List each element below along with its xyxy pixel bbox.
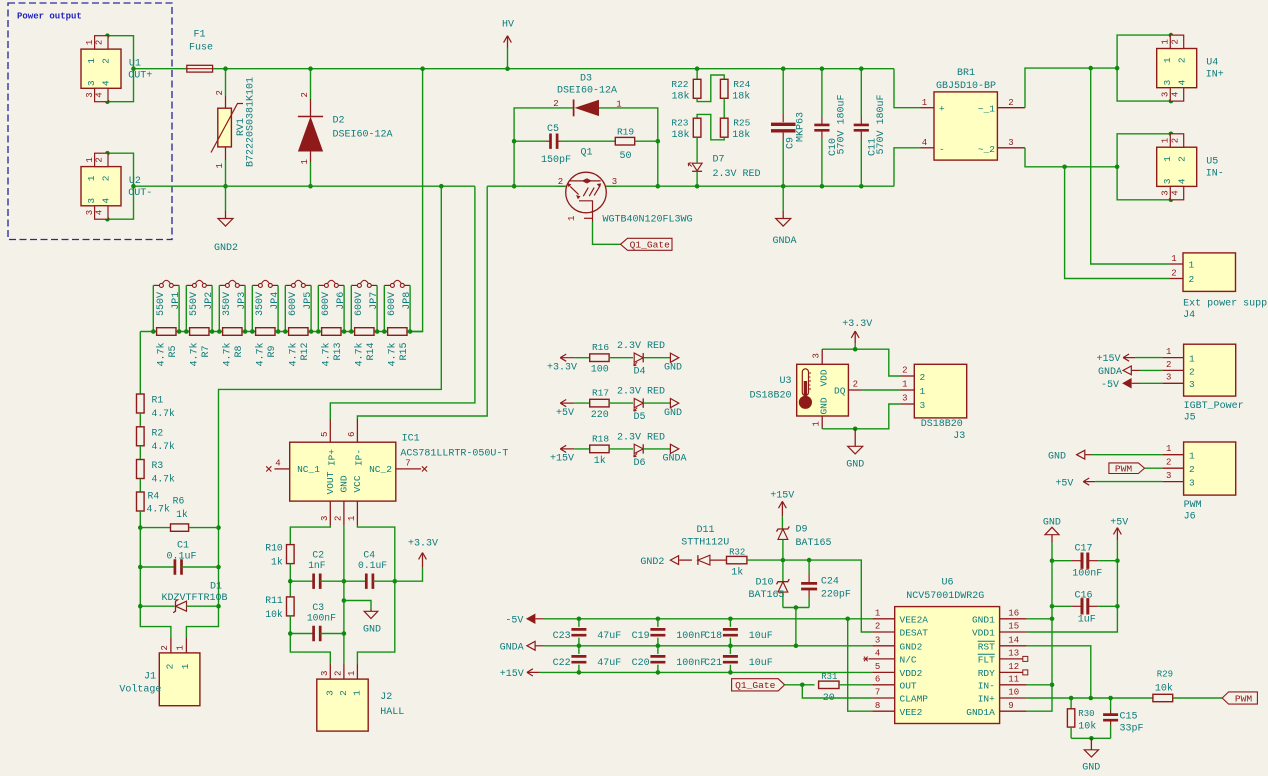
svg-text:GND: GND bbox=[1048, 451, 1066, 462]
svg-text:R6: R6 bbox=[173, 496, 185, 507]
svg-text:10: 10 bbox=[1008, 688, 1019, 698]
svg-text:F1: F1 bbox=[193, 30, 205, 41]
svg-text:IN+: IN+ bbox=[1206, 70, 1224, 81]
svg-text:3: 3 bbox=[1162, 178, 1173, 184]
svg-text:1k: 1k bbox=[731, 567, 743, 579]
svg-text:D4: D4 bbox=[633, 367, 645, 378]
svg-text:BAT165: BAT165 bbox=[796, 538, 832, 549]
svg-text:~_1: ~_1 bbox=[978, 104, 995, 115]
svg-text:1: 1 bbox=[1171, 254, 1176, 264]
svg-text:5: 5 bbox=[875, 662, 880, 672]
wire to Ext power supply pin1 bbox=[1091, 68, 1170, 264]
resistor R2 4.7k bbox=[137, 413, 175, 452]
svg-text:JP2: JP2 bbox=[204, 292, 215, 310]
svg-text:D3: D3 bbox=[580, 74, 592, 85]
svg-text:+5V: +5V bbox=[1055, 478, 1073, 489]
svg-text:R15: R15 bbox=[399, 342, 410, 360]
wire R30/C15 ground link bbox=[1071, 737, 1111, 739]
svg-text:U5: U5 bbox=[1206, 156, 1218, 167]
svg-text:2.3V RED: 2.3V RED bbox=[617, 341, 665, 352]
svg-text:3: 3 bbox=[920, 400, 926, 411]
svg-text:1: 1 bbox=[1189, 451, 1195, 462]
svg-text:1k: 1k bbox=[176, 509, 188, 520]
connector J2 HALL bbox=[317, 664, 405, 731]
svg-text:+3.3V: +3.3V bbox=[842, 319, 872, 330]
svg-text:2.3V RED: 2.3V RED bbox=[617, 432, 665, 443]
svg-text:DSEI60-12A: DSEI60-12A bbox=[333, 130, 393, 141]
svg-text:RDY: RDY bbox=[978, 668, 995, 679]
resistor R7 4.7k bbox=[184, 328, 214, 367]
svg-text:VCC: VCC bbox=[352, 475, 363, 492]
LED D4 2.3V RED bbox=[617, 341, 670, 378]
resistor R9 4.7k bbox=[250, 328, 280, 367]
svg-text:3: 3 bbox=[324, 690, 335, 696]
capacitor C17 100nF bbox=[1050, 544, 1120, 580]
svg-text:R4: R4 bbox=[148, 491, 160, 502]
capacitor C24 220pF bbox=[801, 560, 851, 607]
junction J4 drop2 bbox=[1062, 165, 1067, 170]
power flag +5V (LED row) bbox=[556, 400, 574, 419]
LED D7 2.3V RED bbox=[688, 137, 760, 186]
svg-text:2: 2 bbox=[1189, 464, 1195, 475]
svg-text:10k: 10k bbox=[1155, 683, 1173, 695]
wire IN+ row bbox=[1027, 697, 1153, 699]
resistor R6 1k bbox=[138, 496, 221, 532]
svg-text:Fuse: Fuse bbox=[189, 43, 213, 54]
svg-text:DESAT: DESAT bbox=[900, 628, 929, 639]
svg-text:4: 4 bbox=[875, 649, 880, 659]
svg-text:NC_1: NC_1 bbox=[297, 464, 320, 475]
svg-text:10uF: 10uF bbox=[749, 658, 773, 669]
svg-text:600V: 600V bbox=[387, 292, 398, 316]
svg-text:1: 1 bbox=[86, 175, 97, 181]
svg-text:C5: C5 bbox=[547, 124, 559, 135]
ground flag GND at J6 bbox=[1048, 450, 1162, 462]
wire OUT- bus left segment bbox=[134, 185, 475, 187]
svg-text:2.3V RED: 2.3V RED bbox=[713, 169, 761, 180]
svg-text:4.7k: 4.7k bbox=[254, 342, 266, 366]
resistor R25 18k bbox=[720, 118, 750, 142]
ground GND at C15 bbox=[1082, 738, 1100, 773]
svg-text:3: 3 bbox=[320, 671, 330, 676]
svg-text:2: 2 bbox=[1176, 57, 1187, 63]
svg-text:100nF: 100nF bbox=[676, 631, 706, 642]
svg-text:1: 1 bbox=[1161, 39, 1171, 44]
svg-text:3: 3 bbox=[1189, 379, 1195, 390]
capacitor C2 1nF bbox=[288, 550, 346, 589]
svg-text:R1: R1 bbox=[152, 395, 164, 406]
jumper JP4 350V bbox=[252, 280, 281, 331]
label Q1_Gate flag bbox=[621, 238, 673, 250]
connector J6 PWM bbox=[1162, 442, 1235, 523]
svg-text:220pF: 220pF bbox=[821, 590, 851, 601]
svg-text:350V: 350V bbox=[255, 292, 266, 316]
svg-text:JP8: JP8 bbox=[402, 292, 413, 310]
svg-text:4.7k: 4.7k bbox=[152, 441, 175, 452]
fuse F1 bbox=[187, 30, 213, 73]
wire GND1 net bbox=[1027, 618, 1052, 620]
svg-text:GND1A: GND1A bbox=[966, 707, 995, 718]
svg-text:3: 3 bbox=[320, 516, 330, 521]
ground flag GND2 at D11 bbox=[640, 556, 678, 568]
svg-text:U2: U2 bbox=[129, 176, 141, 187]
power flag +15V at J5 bbox=[1096, 354, 1162, 365]
capacitor C4 0.1uF bbox=[344, 550, 397, 589]
svg-text:2: 2 bbox=[920, 372, 926, 383]
svg-text:IP+: IP+ bbox=[327, 449, 338, 466]
svg-text:D5: D5 bbox=[633, 412, 645, 423]
svg-text:2: 2 bbox=[1171, 269, 1176, 279]
resistor R10 1k bbox=[265, 543, 294, 598]
svg-text:4.7k: 4.7k bbox=[353, 342, 365, 366]
svg-text:Ext power supply: Ext power supply bbox=[1183, 298, 1268, 310]
capacitor C1 0.1uF bbox=[138, 541, 221, 575]
capacitor C23 47uF bbox=[553, 619, 622, 646]
wire divider chain bbox=[139, 332, 141, 395]
svg-text:14: 14 bbox=[1008, 636, 1019, 646]
svg-text:1: 1 bbox=[1189, 354, 1195, 365]
capacitor C19 100nF bbox=[632, 619, 707, 646]
svg-text:100nF: 100nF bbox=[1072, 569, 1102, 580]
svg-text:J4: J4 bbox=[1183, 310, 1195, 321]
svg-text:18k: 18k bbox=[732, 129, 750, 141]
jumper JP3 350V bbox=[219, 280, 248, 331]
svg-text:GND: GND bbox=[338, 475, 349, 492]
svg-text:R17: R17 bbox=[592, 388, 609, 399]
svg-text:C1: C1 bbox=[177, 541, 189, 552]
capacitor C10 570V 180uF bbox=[814, 66, 847, 188]
svg-text:MKP63: MKP63 bbox=[796, 112, 807, 142]
svg-text:1: 1 bbox=[347, 516, 357, 521]
svg-text:R11: R11 bbox=[265, 595, 283, 606]
svg-text:R18: R18 bbox=[592, 433, 609, 444]
connector U4 bbox=[1115, 33, 1224, 104]
svg-text:Power output: Power output bbox=[17, 11, 82, 21]
svg-text:2.3V RED: 2.3V RED bbox=[617, 387, 665, 398]
svg-text:J3: J3 bbox=[953, 431, 965, 442]
svg-text:50: 50 bbox=[619, 151, 631, 162]
ground GND at C3 bbox=[342, 598, 381, 635]
capacitor C16 1uF bbox=[1050, 561, 1120, 626]
jumper JP1 550V bbox=[153, 280, 182, 331]
svg-text:5: 5 bbox=[320, 432, 330, 437]
svg-text:C2: C2 bbox=[312, 550, 324, 561]
svg-text:15: 15 bbox=[1008, 622, 1019, 632]
capacitor C15 33pF bbox=[1103, 698, 1143, 738]
svg-text:7: 7 bbox=[875, 688, 880, 698]
resistor R13 4.7k bbox=[316, 328, 346, 367]
svg-text:4.7k: 4.7k bbox=[152, 474, 175, 485]
svg-text:GNDA: GNDA bbox=[1098, 367, 1122, 378]
resistor R4 4.7k bbox=[137, 479, 170, 515]
label PWM input flag at J6 bbox=[1109, 463, 1162, 475]
svg-text:JP7: JP7 bbox=[369, 292, 380, 310]
svg-text:570V 180uF: 570V 180uF bbox=[837, 94, 848, 154]
bridge rectifier BR1 GBJ5D10-BP bbox=[921, 68, 1026, 160]
svg-text:C19: C19 bbox=[632, 631, 650, 642]
svg-text:R2: R2 bbox=[152, 427, 164, 438]
capacitor C11 570V 180uF bbox=[854, 66, 887, 188]
svg-text:GND: GND bbox=[664, 362, 682, 373]
connector U5 bbox=[1115, 132, 1224, 203]
svg-text:10uF: 10uF bbox=[749, 631, 773, 642]
svg-text:R23: R23 bbox=[671, 118, 688, 129]
svg-text:1: 1 bbox=[180, 663, 191, 669]
svg-text:1: 1 bbox=[1189, 260, 1195, 271]
svg-text:570V 180uF: 570V 180uF bbox=[876, 94, 887, 154]
svg-text:D6: D6 bbox=[633, 458, 645, 469]
svg-text:J1: J1 bbox=[144, 672, 156, 683]
svg-text:Q1_Gate: Q1_Gate bbox=[735, 680, 776, 691]
svg-text:STTH112U: STTH112U bbox=[681, 538, 729, 549]
svg-text:Voltage: Voltage bbox=[119, 684, 161, 696]
wire R25-R23 link bbox=[697, 114, 724, 139]
svg-text:B72220S0381K101: B72220S0381K101 bbox=[246, 77, 257, 167]
svg-text:R22: R22 bbox=[671, 79, 688, 90]
resistor R31 20 bbox=[819, 672, 873, 704]
svg-text:47uF: 47uF bbox=[597, 658, 621, 669]
svg-text:1k: 1k bbox=[271, 557, 283, 568]
svg-text:C3: C3 bbox=[312, 602, 324, 613]
svg-text:12: 12 bbox=[1008, 662, 1019, 672]
svg-text:4.7k: 4.7k bbox=[221, 342, 233, 366]
svg-text:VEE2A: VEE2A bbox=[900, 614, 929, 625]
junction J4 drop1 bbox=[1088, 66, 1093, 71]
svg-text:VOUT: VOUT bbox=[325, 471, 336, 494]
wire VDD1 to +5V bbox=[1027, 606, 1118, 632]
svg-text:2: 2 bbox=[333, 516, 343, 521]
svg-text:R14: R14 bbox=[366, 342, 377, 360]
svg-text:C21: C21 bbox=[704, 658, 722, 669]
power flag +3.3V at U3 bbox=[842, 319, 872, 349]
wire gate node bbox=[785, 684, 815, 686]
svg-text:2: 2 bbox=[1170, 39, 1180, 44]
svg-text:GNDA: GNDA bbox=[662, 454, 686, 465]
svg-text:1: 1 bbox=[920, 386, 926, 397]
svg-text:R16: R16 bbox=[592, 342, 609, 353]
svg-text:3: 3 bbox=[1161, 92, 1171, 97]
svg-text:18k: 18k bbox=[671, 91, 689, 103]
svg-text:2: 2 bbox=[160, 645, 170, 650]
wire +15V rail (VDD2) bbox=[540, 671, 873, 673]
svg-text:1: 1 bbox=[567, 216, 577, 221]
svg-text:6: 6 bbox=[875, 675, 880, 685]
svg-text:GND1: GND1 bbox=[972, 614, 995, 625]
wire OUT- bus right segment bbox=[487, 185, 566, 187]
svg-text:+5V: +5V bbox=[556, 408, 574, 419]
svg-text:J2: J2 bbox=[380, 692, 392, 703]
svg-text:2: 2 bbox=[1008, 98, 1013, 108]
svg-text:JP3: JP3 bbox=[237, 292, 248, 310]
resistor R14 4.7k bbox=[349, 328, 379, 367]
capacitor C20 100nF bbox=[632, 646, 707, 673]
varistor RV1 bbox=[211, 66, 257, 186]
svg-text:R29: R29 bbox=[1157, 670, 1173, 680]
junction D7 bottom bbox=[695, 184, 700, 189]
svg-text:U6: U6 bbox=[941, 578, 953, 589]
svg-text:+3.3V: +3.3V bbox=[408, 539, 438, 550]
connector J4 Ext power supply bbox=[1170, 253, 1268, 321]
svg-text:2: 2 bbox=[553, 99, 558, 109]
wire chain bottom to C1/D1 loop bbox=[140, 511, 171, 638]
LED D6 2.3V RED bbox=[617, 432, 670, 469]
svg-text:VDD1: VDD1 bbox=[972, 628, 995, 639]
svg-text:2: 2 bbox=[1166, 458, 1171, 468]
transistor Q1 WGTB40N120FL3WG (IGBT) bbox=[557, 172, 693, 225]
svg-text:+: + bbox=[939, 104, 945, 115]
svg-text:2: 2 bbox=[902, 366, 907, 376]
svg-text:1: 1 bbox=[347, 671, 357, 676]
svg-text:PWM: PWM bbox=[1235, 693, 1253, 704]
jumper JP7 600V bbox=[351, 280, 380, 331]
svg-text:+15V: +15V bbox=[1096, 354, 1120, 365]
svg-text:600V: 600V bbox=[354, 292, 365, 316]
svg-text:1k: 1k bbox=[594, 455, 606, 467]
svg-text:4: 4 bbox=[922, 138, 927, 148]
svg-text:100nF: 100nF bbox=[307, 612, 336, 623]
connector J1 Voltage bbox=[119, 638, 199, 706]
svg-text:GNDA: GNDA bbox=[772, 236, 796, 247]
ground flag GND above C17 bbox=[1043, 517, 1061, 560]
svg-text:2: 2 bbox=[875, 622, 880, 632]
svg-text:2: 2 bbox=[300, 92, 310, 97]
diode D2 DSEI60-12A bbox=[298, 66, 393, 188]
svg-text:+15V: +15V bbox=[500, 669, 524, 680]
svg-text:R30: R30 bbox=[1078, 709, 1094, 719]
wire to Ext power supply pin2 bbox=[1065, 167, 1170, 279]
diode D11 STTH112U bbox=[679, 525, 729, 565]
svg-text:18k: 18k bbox=[732, 91, 750, 103]
svg-text:U3: U3 bbox=[779, 376, 791, 387]
svg-text:600V: 600V bbox=[321, 292, 332, 316]
jumper JP6 600V bbox=[318, 280, 347, 331]
svg-text:DQ: DQ bbox=[834, 386, 846, 397]
power flag -5V rail bbox=[505, 614, 543, 626]
resistor R3 4.7k bbox=[137, 446, 175, 485]
wire D10/C24 to GND2 rail bbox=[783, 607, 809, 609]
svg-text:1: 1 bbox=[1162, 156, 1173, 162]
wire GND branch bbox=[343, 526, 345, 664]
svg-text:J5: J5 bbox=[1184, 413, 1196, 424]
svg-text:2: 2 bbox=[1166, 360, 1171, 370]
capacitor C18 10uF bbox=[704, 619, 773, 646]
svg-text:1: 1 bbox=[1161, 138, 1171, 143]
connector J3 DS18B20 bbox=[901, 364, 967, 442]
svg-text:ACS781LLRTR-050U-T: ACS781LLRTR-050U-T bbox=[400, 449, 508, 460]
svg-text:3: 3 bbox=[85, 92, 95, 97]
junction JP bus top bbox=[420, 66, 425, 71]
svg-text:JP5: JP5 bbox=[303, 292, 314, 310]
wire snubber left leg bbox=[514, 108, 574, 186]
svg-text:1: 1 bbox=[1166, 444, 1171, 454]
svg-text:2: 2 bbox=[853, 380, 858, 390]
jumper JP2 550V bbox=[186, 280, 215, 331]
svg-text:1: 1 bbox=[922, 98, 927, 108]
temperature sensor U3 DS18B20 bbox=[749, 349, 861, 429]
svg-text:3: 3 bbox=[902, 394, 907, 404]
svg-text:C24: C24 bbox=[821, 577, 839, 588]
svg-text:GND2: GND2 bbox=[900, 641, 923, 652]
svg-text:JP6: JP6 bbox=[336, 292, 347, 310]
svg-text:1: 1 bbox=[1166, 347, 1171, 357]
wire DESAT row bbox=[747, 560, 873, 632]
junction DESAT row bbox=[781, 558, 786, 563]
power flag +5V at J6 bbox=[1055, 478, 1162, 489]
svg-text:DS18B20: DS18B20 bbox=[921, 419, 963, 430]
svg-text:0.1uF: 0.1uF bbox=[166, 552, 196, 563]
power flag +3.3V (LED row) bbox=[547, 354, 577, 373]
svg-text:47uF: 47uF bbox=[597, 631, 621, 642]
svg-text:2: 2 bbox=[1189, 274, 1195, 285]
wire Q1 gate to flag bbox=[593, 222, 621, 244]
resistor R29 10k bbox=[1153, 670, 1222, 702]
svg-text:R5: R5 bbox=[168, 345, 179, 357]
ground flag GNDA at J5 bbox=[1098, 366, 1162, 378]
svg-text:1: 1 bbox=[300, 159, 310, 164]
svg-text:1: 1 bbox=[616, 100, 621, 110]
wire VOUT branch bbox=[290, 526, 330, 545]
svg-text:3: 3 bbox=[1166, 373, 1171, 383]
diode D3 DSEI60-12A bbox=[553, 74, 621, 117]
IC U6 NCV57001DWR2G bbox=[863, 578, 1028, 724]
svg-text:WGTB40N120FL3WG: WGTB40N120FL3WG bbox=[603, 214, 693, 225]
junction snubber left bbox=[512, 139, 517, 144]
svg-text:IGBT_Power: IGBT_Power bbox=[1184, 401, 1244, 412]
svg-text:1nF: 1nF bbox=[308, 560, 326, 571]
svg-text:2: 2 bbox=[1189, 366, 1195, 377]
ground flag GND (LED row) bbox=[664, 353, 682, 373]
svg-text:1: 1 bbox=[86, 58, 97, 64]
svg-text:4: 4 bbox=[95, 210, 105, 215]
svg-text:8: 8 bbox=[875, 701, 880, 711]
svg-text:33pF: 33pF bbox=[1120, 724, 1144, 735]
power flag HV bbox=[502, 20, 514, 71]
svg-text:4: 4 bbox=[101, 198, 112, 204]
svg-text:7: 7 bbox=[405, 459, 410, 469]
svg-text:Q1_Gate: Q1_Gate bbox=[630, 240, 671, 251]
svg-text:C17: C17 bbox=[1074, 544, 1092, 555]
wire DQ bbox=[862, 389, 901, 391]
svg-text:1: 1 bbox=[875, 609, 880, 619]
svg-text:D1: D1 bbox=[210, 582, 222, 593]
svg-text:4: 4 bbox=[275, 459, 280, 469]
svg-text:IP-: IP- bbox=[354, 449, 365, 466]
diode D10 BAT165 bbox=[748, 560, 789, 607]
svg-text:3: 3 bbox=[86, 198, 97, 204]
svg-text:N/C: N/C bbox=[900, 655, 917, 666]
junction GND rail bbox=[853, 427, 858, 432]
svg-text:220: 220 bbox=[591, 410, 609, 421]
dashed box 'Power output' region bbox=[8, 3, 172, 240]
svg-text:10k: 10k bbox=[1078, 721, 1096, 733]
svg-text:DSEI60-12A: DSEI60-12A bbox=[557, 86, 617, 97]
svg-text:1: 1 bbox=[175, 645, 185, 650]
wire R24-R25 link bbox=[723, 99, 725, 119]
svg-text:U4: U4 bbox=[1206, 58, 1218, 69]
svg-text:GBJ5D10-BP: GBJ5D10-BP bbox=[936, 81, 996, 92]
svg-text:18k: 18k bbox=[671, 129, 689, 141]
svg-text:R9: R9 bbox=[267, 345, 278, 357]
svg-text:R13: R13 bbox=[333, 342, 344, 360]
svg-text:1: 1 bbox=[215, 163, 225, 168]
svg-text:4.7k: 4.7k bbox=[155, 342, 167, 366]
svg-text:1: 1 bbox=[1162, 57, 1173, 63]
svg-text:Q1: Q1 bbox=[580, 148, 592, 159]
power flag +15V at D9 bbox=[770, 490, 794, 529]
svg-text:550V: 550V bbox=[156, 292, 167, 316]
jumper JP5 600V bbox=[285, 280, 314, 331]
svg-text:D9: D9 bbox=[796, 525, 808, 536]
